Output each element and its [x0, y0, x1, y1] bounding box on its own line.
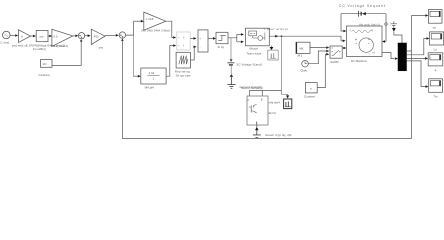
sum S2 (circle) — [119, 32, 125, 38]
scope SC1 — [428, 10, 442, 24]
DC machine MC2 — [347, 26, 383, 57]
scope SC3 — [428, 53, 443, 66]
svg-text:Motorl: Motorl — [250, 46, 259, 50]
svg-text:3C Madwra: 3C Madwra — [351, 59, 367, 63]
svg-text:M ): M ) — [298, 54, 302, 58]
wire sum S2 to branch — [126, 21, 134, 35]
wire mux to node and scope SC1 and feedback — [407, 16, 426, 139]
wire gain G4 to PWM block A port1 — [166, 21, 173, 37]
svg-text:2N: 2N — [43, 62, 47, 66]
wire bridge B1 top ports — [250, 91, 282, 96]
svg-text:4 04: 4 04 — [149, 71, 155, 75]
relay R1 — [216, 32, 228, 43]
gain G2 (0.5 triangle) — [52, 29, 73, 46]
sum S1 (circle) — [78, 33, 84, 39]
clock CLK1 — [302, 60, 309, 66]
mux MX1 — [398, 43, 407, 71]
sum S3 (rect sum) — [198, 30, 208, 52]
svg-text:3C Voltage S(and): 3C Voltage S(and) — [237, 63, 262, 67]
svg-text:dw and (lw)(t): dw and (lw)(t) — [359, 22, 380, 26]
wire gain G2 to sum S1 — [73, 35, 76, 37]
svg-text:Se qw saw: Se qw saw — [176, 74, 192, 78]
wire ground G3 to mux top — [394, 32, 402, 43]
wire node J2 down to scope SC0 — [282, 36, 288, 95]
wire clock CLK1 to switch SW1 port2 — [308, 51, 326, 64]
svg-text:T pser arter(s: T pser arter(s — [264, 27, 289, 31]
wire block A to sum S3 port1 — [190, 37, 193, 39]
svg-text:Clwk: Clwk — [300, 68, 307, 72]
constant MC1 — [296, 42, 310, 53]
gain G3 (450 triangle) — [91, 29, 105, 44]
wire mux to scope SC3 — [407, 57, 426, 59]
scope SC0 (bar display) — [284, 99, 292, 109]
wire block F1 to gain G2 — [48, 35, 49, 37]
svg-text:4t 2y: 4t 2y — [218, 45, 225, 49]
display BB1 (bar scope under motor) — [268, 50, 278, 60]
DC voltage source V1 (battery) — [227, 62, 234, 64]
node J2 on motor output — [281, 35, 283, 37]
wire constant K1 to sum S1 — [52, 42, 81, 66]
wire gain G3 to sum S2 — [105, 34, 116, 36]
battery symbol V2 — [357, 11, 359, 17]
svg-text:450: 450 — [94, 34, 99, 38]
wire TF1 to PWM block A port2 — [166, 46, 173, 77]
svg-text:Cowtwrt: Cowtwrt — [304, 95, 315, 99]
svg-text:M4 ja4: M4 ja4 — [145, 86, 155, 90]
wire sum S1 to gain G3 — [85, 35, 88, 37]
svg-text:CC Voltage Sequent: CC Voltage Sequent — [339, 4, 386, 8]
wire vertical branch x133.5 — [133, 35, 135, 76]
DC machine output port circle — [385, 23, 387, 25]
ground G1 — [227, 77, 235, 89]
wire gain A1 to block F1 — [30, 35, 33, 37]
transfer fcn TF1 (4 04 / 1) — [141, 68, 166, 84]
motor subsystem M1 — [246, 28, 270, 46]
svg-text:A: A — [21, 34, 23, 38]
repeating sequence RS1 — [176, 52, 190, 68]
wire motor bottom port to display BB1 — [271, 46, 273, 48]
PWM block A — [177, 32, 190, 50]
svg-text:Swt8h: Swt8h — [330, 60, 339, 64]
wire motor M1 output to DC machine port2 — [269, 36, 342, 41]
svg-text:1 218: 1 218 — [146, 17, 154, 21]
svg-text:MK: MK — [299, 47, 304, 51]
wire relay R1 to motor block ports — [228, 34, 241, 41]
gain G4 (1/218 triangle) — [144, 12, 166, 30]
switch SW1 — [330, 46, 342, 58]
ground G3 — [391, 21, 397, 28]
wire machine m output to mux — [382, 53, 394, 59]
DC voltage source V2 wire — [341, 14, 386, 42]
svg-text:B: B — [261, 97, 263, 101]
wire sum S3 to relay R1 — [208, 37, 213, 39]
svg-text:-: - — [200, 45, 201, 49]
ground G2 under bridge B1 — [253, 124, 261, 137]
block F1 (transfer fcn) — [36, 31, 48, 42]
svg-text:Pfes( swa 2): Pfes( swa 2) — [51, 44, 68, 48]
arrow into ground G1 — [230, 74, 234, 77]
svg-text:Cswlan(: Cswlan( — [39, 73, 51, 77]
feedback wire bottom — [123, 41, 412, 139]
wire switch SW1 to DC machine port3 — [342, 47, 343, 49]
svg-text:0.5: 0.5 — [53, 34, 58, 38]
scope SC4 — [429, 79, 443, 93]
wire constant K2 to switch SW1 port3 — [317, 54, 326, 87]
bridge block B1 — [247, 96, 268, 125]
wire mux to scope SC2 — [407, 39, 427, 55]
constant K1 (2N) — [41, 60, 53, 68]
svg-text:v4a rbe4: v4a rbe4 — [269, 100, 281, 104]
svg-text:C (ws): C (ws) — [0, 40, 9, 44]
svg-text:240 34(0 34k4 3 5km(: 240 34(0 34k4 3 5km( — [141, 29, 170, 33]
svg-text:Tsam sava: Tsam sava — [246, 52, 261, 56]
svg-text:E(=C): E(=C) — [269, 111, 277, 115]
scope SC2 — [430, 32, 444, 45]
wire RS1 to sum S3 port2 — [190, 47, 194, 60]
wire source to gain A1 — [10, 35, 15, 37]
constant K2 — [305, 83, 317, 93]
source block C1 (signal source circle) — [3, 31, 11, 39]
svg-text:Ls: Ls — [434, 48, 438, 52]
svg-text:Grown 4 (ju dg ,4)4: Grown 4 (ju dg ,4)4 — [265, 133, 292, 137]
wire mux to scope SC4 — [407, 61, 426, 87]
gain A1 (triangle) — [19, 30, 31, 43]
svg-text:Seund Gerpe(s): Seund Gerpe(s) — [241, 86, 263, 90]
wire branch to TF1 input — [134, 75, 138, 77]
wire branch to gain G4 — [134, 20, 141, 22]
wire MC1 to switch SW1 port1 — [310, 47, 326, 49]
wire junction down to DC source V1 — [230, 38, 232, 60]
svg-text:a: a — [435, 68, 437, 72]
svg-text:Fu raB(s): Fu raB(s) — [33, 47, 46, 51]
